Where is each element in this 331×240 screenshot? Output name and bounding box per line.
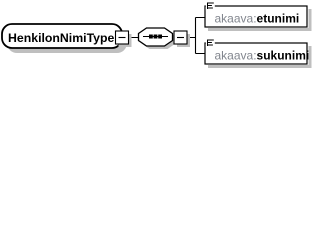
svg-text:akaava:etunimi: akaava:etunimi [215,12,300,26]
svg-text:HenkilonNimiType: HenkilonNimiType [8,31,115,45]
svg-text:akaava:sukunimi: akaava:sukunimi [215,49,310,63]
